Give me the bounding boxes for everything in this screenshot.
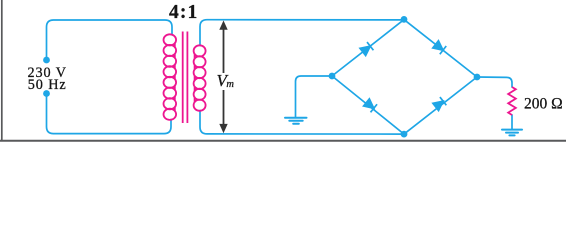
svg-text:50 Hz: 50 Hz	[28, 77, 67, 93]
svg-text:200 Ω: 200 Ω	[524, 96, 563, 113]
svg-text:4:1: 4:1	[169, 2, 198, 23]
